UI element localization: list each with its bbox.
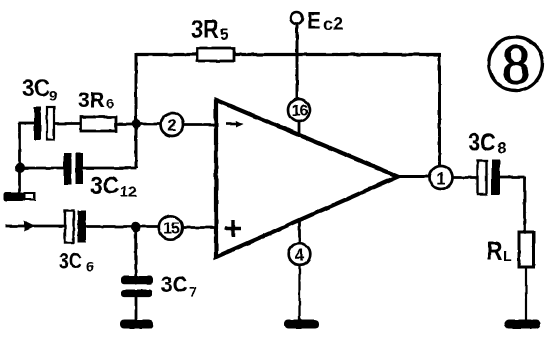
svg-text:3C: 3C <box>468 129 496 157</box>
pin 2 <box>161 113 184 136</box>
ground left <box>4 193 35 202</box>
wire 3C9 to 3R6 <box>54 122 81 125</box>
capacitor 3C7 <box>121 273 197 300</box>
svg-text:4: 4 <box>295 245 305 264</box>
resistor 3R5 <box>191 15 234 61</box>
wire op-amp output <box>398 175 430 178</box>
svg-text:8: 8 <box>502 34 530 96</box>
wire 3C7 branch vertical <box>134 227 137 276</box>
svg-text:3C: 3C <box>161 273 188 298</box>
svg-text:3R: 3R <box>78 89 105 112</box>
svg-text:E: E <box>307 7 321 34</box>
svg-text:c2: c2 <box>323 14 343 34</box>
svg-text:8: 8 <box>498 141 507 158</box>
pin 16 <box>288 99 310 121</box>
wire 3C6 to pin 15 <box>86 225 159 228</box>
svg-text:R: R <box>487 237 503 266</box>
plus at non-inverting input <box>225 220 241 237</box>
pin 4 <box>289 243 311 265</box>
ground under RL <box>504 320 541 330</box>
svg-text:15: 15 <box>163 221 180 238</box>
pin 15 <box>159 216 182 239</box>
svg-text:L: L <box>503 248 512 265</box>
wire pin 16 to op-amp edge <box>298 121 301 135</box>
junction node at 3C7 branch <box>130 222 140 232</box>
figure number 8 <box>489 34 543 96</box>
svg-text:5: 5 <box>220 25 229 44</box>
svg-text:3R: 3R <box>191 15 219 44</box>
wire RL to ground <box>525 267 527 320</box>
svg-text:6: 6 <box>86 259 94 275</box>
svg-text:2: 2 <box>167 116 176 135</box>
pin 1 <box>430 166 453 189</box>
wire 3C7 to ground <box>135 297 138 320</box>
wire left ground branch vertical <box>18 123 21 193</box>
svg-text:1: 1 <box>436 169 445 188</box>
svg-text:7: 7 <box>189 284 197 300</box>
wire input with arrow <box>5 225 65 228</box>
arrow at inverting input <box>226 121 243 128</box>
wire 3R6 to pin 2 <box>116 123 161 126</box>
wire 3C9 left lead <box>19 122 34 125</box>
capacitor 3C12 <box>64 153 137 201</box>
capacitor 3C8 <box>468 129 507 195</box>
capacitor 3C6 <box>59 211 94 275</box>
wire op-amp edge to pin 4 <box>298 221 301 244</box>
svg-text:3C: 3C <box>22 74 50 101</box>
resistor RL <box>487 232 534 267</box>
svg-text:6: 6 <box>106 96 114 112</box>
svg-text:16: 16 <box>292 103 309 120</box>
capacitor 3C9 <box>22 74 57 140</box>
wire left feedback vertical <box>135 53 138 168</box>
wire pin 15 to op-amp <box>182 226 216 229</box>
ground under 3C7 <box>120 320 153 329</box>
wire pin 4 to ground <box>298 265 300 320</box>
wire 3C12 to junction vertical <box>83 167 136 170</box>
junction node left <box>15 163 25 173</box>
input arrowhead <box>24 221 36 232</box>
op-amp triangle <box>216 100 398 257</box>
svg-text:9: 9 <box>49 88 57 105</box>
wire top feedback horizontal <box>136 53 441 56</box>
Ec2 supply terminal <box>291 7 344 34</box>
svg-text:12: 12 <box>120 184 137 201</box>
ground under pin 4 <box>284 320 319 329</box>
svg-text:3C: 3C <box>59 250 82 274</box>
wire right feedback vertical <box>438 53 441 167</box>
resistor 3R6 <box>78 89 116 131</box>
wire pin 1 to 3C8 <box>453 176 478 179</box>
wire pin 2 to op-amp <box>184 123 217 126</box>
wire 3C8 to RL <box>500 177 525 232</box>
wire junction to 3C12 <box>20 167 64 170</box>
wire Ec2 vertical to pin 16 <box>296 24 299 99</box>
junction node at feedback/input <box>131 119 140 128</box>
svg-text:3C: 3C <box>90 172 119 199</box>
